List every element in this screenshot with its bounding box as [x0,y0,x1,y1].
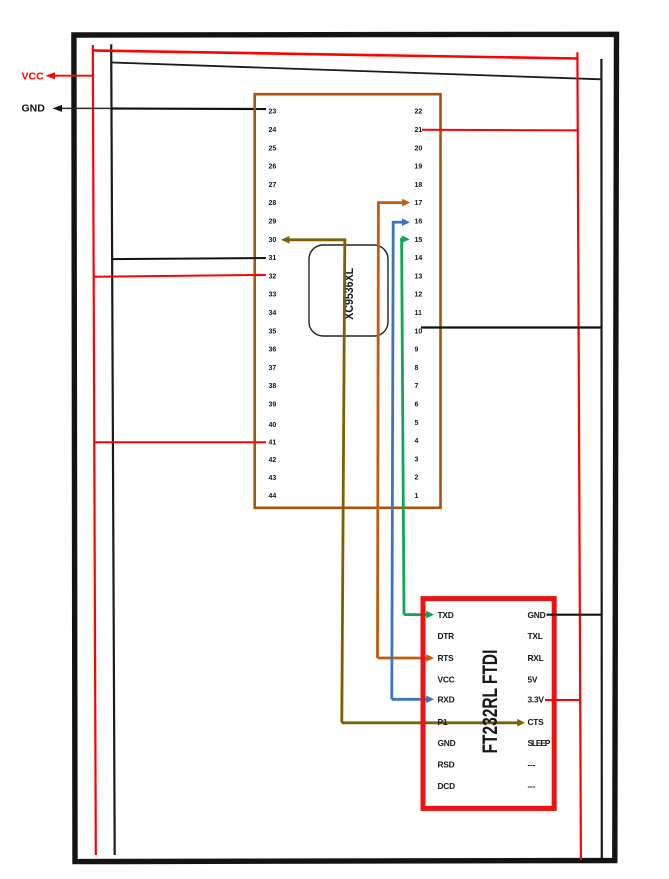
svg-text:16: 16 [415,219,423,226]
svg-text:40: 40 [269,422,277,429]
svg-text:4: 4 [415,438,419,445]
right red vertical wire (VCC rail right) [577,52,581,860]
wire U1 pin 10 to right black rail [421,326,601,328]
IC U2 FT232RL FTDI body [423,599,554,809]
svg-text:32: 32 [269,273,277,280]
svg-text:GND: GND [22,103,46,115]
svg-text:31: 31 [269,255,277,262]
green wire U2 TXD to U1 pin 15 [400,235,434,618]
svg-text:18: 18 [415,182,423,189]
svg-text:GND: GND [438,738,456,748]
svg-text:10: 10 [415,328,423,335]
svg-text:38: 38 [269,383,277,390]
svg-text:26: 26 [269,164,277,171]
svg-text:2: 2 [415,475,419,482]
svg-text:20: 20 [415,145,423,152]
border frame [74,34,617,861]
VCC wire with arrow [46,72,94,79]
svg-text:5V: 5V [528,675,538,685]
svg-text:35: 35 [269,328,277,335]
GND wire with arrow (to U1 pin 23) [53,105,267,112]
svg-text:30: 30 [269,237,277,244]
svg-text:22: 22 [415,109,423,116]
svg-text:TXD: TXD [438,610,454,620]
olive wire U1 pin 30 to U2 CTS [281,236,525,727]
svg-text:RXL: RXL [528,653,544,663]
svg-text:VCC: VCC [438,675,455,685]
svg-text:21: 21 [415,127,423,134]
svg-text:9: 9 [415,347,419,354]
svg-text:3: 3 [415,456,419,463]
wire U2 GND to right black rail [547,614,602,616]
top black wire (GND rail to right black rail) [112,63,601,80]
svg-text:33: 33 [269,292,277,299]
svg-text:7: 7 [415,383,419,390]
svg-text:25: 25 [269,145,277,152]
svg-text:39: 39 [269,402,277,409]
svg-text:27: 27 [269,182,277,189]
blue wire U2 RXD to U1 pin 16 [392,218,434,703]
svg-text:43: 43 [269,475,277,482]
svg-text:19: 19 [415,164,423,171]
svg-text:37: 37 [269,365,277,372]
right black vertical wire (GND rail right) [600,59,603,858]
wire U1 pin 41 to VCC rail [94,441,266,443]
IC U1 XC9536XL body [255,94,441,508]
svg-text:VCC: VCC [22,71,45,83]
svg-text:RSD: RSD [438,759,455,769]
svg-text:17: 17 [415,200,423,207]
svg-text:DTR: DTR [438,631,455,641]
svg-text:RXD: RXD [438,695,455,705]
svg-text:11: 11 [415,310,423,317]
svg-text:5: 5 [415,420,419,427]
svg-text:24: 24 [269,127,277,134]
svg-text:41: 41 [269,440,277,447]
svg-text:29: 29 [269,219,277,226]
wire U1 pin 31 to GND rail [112,258,266,259]
svg-text:15: 15 [415,237,423,244]
wire U1 pin 21 to right red rail [422,129,578,132]
svg-text:1: 1 [415,493,419,500]
svg-text:34: 34 [269,310,277,317]
svg-text:13: 13 [415,273,423,280]
svg-text:---: --- [528,759,536,769]
svg-text:42: 42 [269,457,277,464]
svg-text:44: 44 [269,493,277,500]
svg-text:8: 8 [415,365,419,372]
svg-text:DCD: DCD [438,781,456,791]
wire U2 3.3V to right red rail [545,699,580,701]
orange wire U2 RTS to U1 pin 17 [377,199,434,662]
GND rail (left black vertical wire) [111,44,115,855]
svg-text:6: 6 [415,402,419,409]
svg-text:GND: GND [528,610,546,620]
svg-text:---: --- [528,781,536,791]
top red wire (VCC rail to right red rail) [93,51,578,59]
svg-text:FT232RL FTDI: FT232RL FTDI [478,650,502,754]
svg-text:28: 28 [269,200,277,207]
svg-text:SLEEP: SLEEP [528,738,551,748]
svg-text:23: 23 [269,109,277,116]
svg-text:CTS: CTS [528,717,545,727]
svg-text:14: 14 [415,255,423,262]
svg-text:3.3V: 3.3V [528,695,545,705]
svg-text:RTS: RTS [438,653,455,663]
svg-text:TXL: TXL [528,631,543,641]
svg-text:P1: P1 [438,717,448,727]
svg-text:12: 12 [415,292,423,299]
svg-text:36: 36 [269,347,277,354]
wire U1 pin 32 to VCC rail [94,275,266,277]
VCC rail (left red vertical wire) [93,45,96,855]
U1 label box [309,245,388,336]
